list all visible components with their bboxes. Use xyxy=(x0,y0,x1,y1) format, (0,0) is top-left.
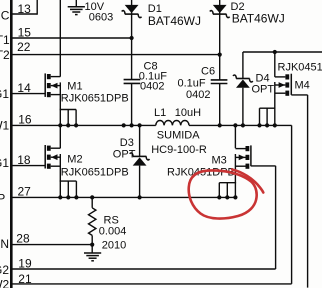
svg-text:G1: G1 xyxy=(0,156,9,170)
svg-text:C: C xyxy=(1,8,10,22)
M3 source comb bar xyxy=(219,182,236,184)
pin 18 wire (BG1 gate M2) xyxy=(13,165,46,167)
svg-text:27: 27 xyxy=(18,185,32,199)
wire M3 drain from SW2 rail xyxy=(234,125,236,148)
junction D3/SW1 xyxy=(138,123,142,127)
diode D1 BAT46WJ xyxy=(125,13,139,15)
junction VOUT/M4 drain xyxy=(273,50,277,54)
pin 27 wire (CSP rail) xyxy=(13,196,236,198)
M4 source comb bar xyxy=(260,107,276,109)
svg-text:22: 22 xyxy=(17,40,31,54)
junction comb/CSP f xyxy=(233,195,237,199)
wire D3 anode to CSP rail xyxy=(139,166,141,198)
M4 comb tick 3 xyxy=(274,108,276,125)
svg-text:P: P xyxy=(0,192,5,206)
wire M3 source to comb xyxy=(234,154,236,183)
wire D1 to C8 xyxy=(131,38,133,80)
svg-text:OPT: OPT xyxy=(252,83,275,95)
junction D3/CSP xyxy=(138,195,142,199)
wire VOUT to D4 cathode xyxy=(242,52,244,79)
transistor M2 RJK0651DPB (N-MOSFET) xyxy=(44,145,46,169)
M2 source comb bar xyxy=(60,180,77,182)
wire RS to ground xyxy=(91,235,93,253)
pin 22 wire (BST2) xyxy=(13,54,220,56)
svg-text:W2: W2 xyxy=(0,278,10,288)
resistor RS 0.004 zigzag xyxy=(89,208,96,236)
junction comb/SW1 b xyxy=(66,123,70,127)
wire SW1 to D3 cathode xyxy=(139,125,141,156)
junction C8/SW1 xyxy=(130,123,134,127)
svg-text:W1: W1 xyxy=(0,118,10,132)
wire CSP to RS xyxy=(91,197,93,207)
pin 28 wire (CSN) xyxy=(13,244,93,246)
M1 source comb bar xyxy=(60,109,77,111)
svg-text:0.004: 0.004 xyxy=(99,226,127,238)
svg-text:0603: 0603 xyxy=(89,12,113,24)
M3 comb tick 1 xyxy=(218,183,220,198)
junction C6/SW2 xyxy=(218,123,222,127)
svg-text:0.1uF: 0.1uF xyxy=(178,77,206,89)
svg-text:18: 18 xyxy=(17,153,31,167)
svg-text:RJK0451DPB: RJK0451DPB xyxy=(278,61,322,73)
svg-text:M2: M2 xyxy=(67,153,82,165)
svg-text:OPT: OPT xyxy=(113,149,136,161)
svg-text:RJK0651DPB: RJK0651DPB xyxy=(61,93,129,105)
wire D2 to C6 xyxy=(219,55,221,80)
red annotation circle (hand-drawn) xyxy=(189,170,257,218)
svg-text:16: 16 xyxy=(18,112,32,126)
pin 16 wire (SW1 rail) xyxy=(13,124,156,126)
svg-text:D3: D3 xyxy=(120,137,134,149)
junction comb/CSP e xyxy=(225,195,229,199)
stray junction dot on SW1 xyxy=(122,123,126,127)
svg-text:M4: M4 xyxy=(295,79,310,91)
junction M3 drain/SW2 xyxy=(233,123,237,127)
M1 comb tick 1 xyxy=(59,110,61,126)
svg-text:T1: T1 xyxy=(0,33,10,47)
diode D2 BAT46WJ xyxy=(213,13,227,15)
pin 19 wire (gate M3) xyxy=(13,268,276,270)
SW2 rail down leg to pin 21 xyxy=(291,125,293,284)
transistor M4 RJK0451 (N-MOSFET, mirrored) xyxy=(290,74,292,95)
M1 comb tick 3 xyxy=(75,110,77,126)
svg-text:BAT46WJ: BAT46WJ xyxy=(232,12,285,26)
diode D3 (OPT) xyxy=(133,155,147,157)
junction comb/CSP a xyxy=(58,195,62,199)
svg-text:0402: 0402 xyxy=(186,89,210,101)
svg-text:N: N xyxy=(0,237,9,251)
SW2 rail wire xyxy=(189,124,292,126)
svg-text:BAT46WJ: BAT46WJ xyxy=(148,14,201,28)
M3 comb tick 2 xyxy=(226,183,228,198)
wire C6 to SW2 rail xyxy=(219,84,221,126)
svg-text:G1: G1 xyxy=(0,87,9,101)
svg-text:13: 13 xyxy=(18,2,32,16)
svg-text:19: 19 xyxy=(18,256,32,270)
svg-text:M1: M1 xyxy=(67,80,82,92)
wire M1 drain (from top edge) xyxy=(59,0,61,77)
M3 gate wire xyxy=(251,165,276,167)
M4 comb tick 1 xyxy=(259,108,261,125)
junction RS/CSN xyxy=(90,243,94,247)
pin 14 wire (TG1 gate M1) xyxy=(13,93,46,95)
capacitor C6 plates xyxy=(211,79,228,81)
svg-text:14: 14 xyxy=(17,81,31,95)
svg-text:21: 21 xyxy=(18,272,32,286)
junction comb/SW2 c xyxy=(273,123,277,127)
wire M1 source to comb xyxy=(59,82,61,109)
svg-text:10uH: 10uH xyxy=(175,107,201,119)
svg-text:2010: 2010 xyxy=(102,240,126,252)
svg-text:G2: G2 xyxy=(0,263,9,277)
junction comb/SW2 b xyxy=(265,123,269,127)
decoupling cap ground (top) stem xyxy=(75,0,77,7)
M4 comb tick 2 xyxy=(266,108,268,125)
svg-text:M3: M3 xyxy=(212,155,227,167)
junction RS/CSP xyxy=(90,195,94,199)
wire C8 to SW1 rail xyxy=(131,83,133,125)
M2 comb tick 1 xyxy=(59,181,61,197)
svg-text:SUMIDA: SUMIDA xyxy=(157,129,200,141)
svg-text:HC9-100-R: HC9-100-R xyxy=(151,144,207,156)
pin 21 wire (SW2) xyxy=(13,283,292,285)
M2 comb tick 3 xyxy=(75,181,77,197)
red annotation tail stroke xyxy=(232,170,263,193)
junction comb/CSP b xyxy=(66,195,70,199)
svg-text:15: 15 xyxy=(18,26,32,40)
junction comb/CSP d xyxy=(217,195,221,199)
capacitor C8 plates xyxy=(124,79,141,81)
ground symbol (top) xyxy=(68,6,85,8)
svg-text:L1: L1 xyxy=(154,107,166,119)
node BOOST1: junction D1/line15 xyxy=(130,36,134,40)
junction D4/SW2 xyxy=(241,123,245,127)
junction comb/CSP c xyxy=(74,195,78,199)
wire D4 anode to SW2 rail xyxy=(242,88,244,126)
wire M2 source to comb xyxy=(59,154,61,181)
M4 gate wire xyxy=(291,94,307,96)
transistor M1 RJK0651DPB (N-MOSFET) xyxy=(44,73,46,97)
VOUT wire (to right edge) xyxy=(243,51,322,53)
pin 15 wire (BST1) xyxy=(13,37,133,39)
junction comb/SW1 a xyxy=(58,123,62,127)
ground symbol (bottom) xyxy=(84,252,101,254)
wire M4 drain xyxy=(274,52,276,77)
wire INTVCC to D1 (from top edge) xyxy=(131,0,133,38)
inductor L1 10uH xyxy=(156,121,189,126)
diode D4 (OPT) xyxy=(236,78,250,80)
pin 13 wire xyxy=(13,13,38,15)
junction comb/SW2 a xyxy=(257,123,261,127)
svg-text:28: 28 xyxy=(16,232,30,246)
svg-text:T2: T2 xyxy=(0,48,10,62)
junction comb/SW1 c xyxy=(74,123,78,127)
svg-text:RJK0651DPB: RJK0651DPB xyxy=(61,166,129,178)
IC body edge (thick bar) xyxy=(10,0,13,288)
M1 comb tick 2 xyxy=(67,110,69,126)
M3 comb tick 3 xyxy=(234,183,236,198)
wire M4 source to comb xyxy=(274,82,276,108)
svg-text:0402: 0402 xyxy=(140,80,164,92)
wire INTVCC to D2 (from top edge) xyxy=(219,0,221,55)
M2 comb tick 2 xyxy=(67,181,69,197)
transistor M3 RJK0451DPB (N-MOSFET, mirrored) xyxy=(250,145,252,166)
svg-text:C6: C6 xyxy=(201,66,215,78)
node BOOST2: junction D2/line22 xyxy=(218,53,222,57)
wire M2 drain from SW1 rail xyxy=(59,125,61,148)
